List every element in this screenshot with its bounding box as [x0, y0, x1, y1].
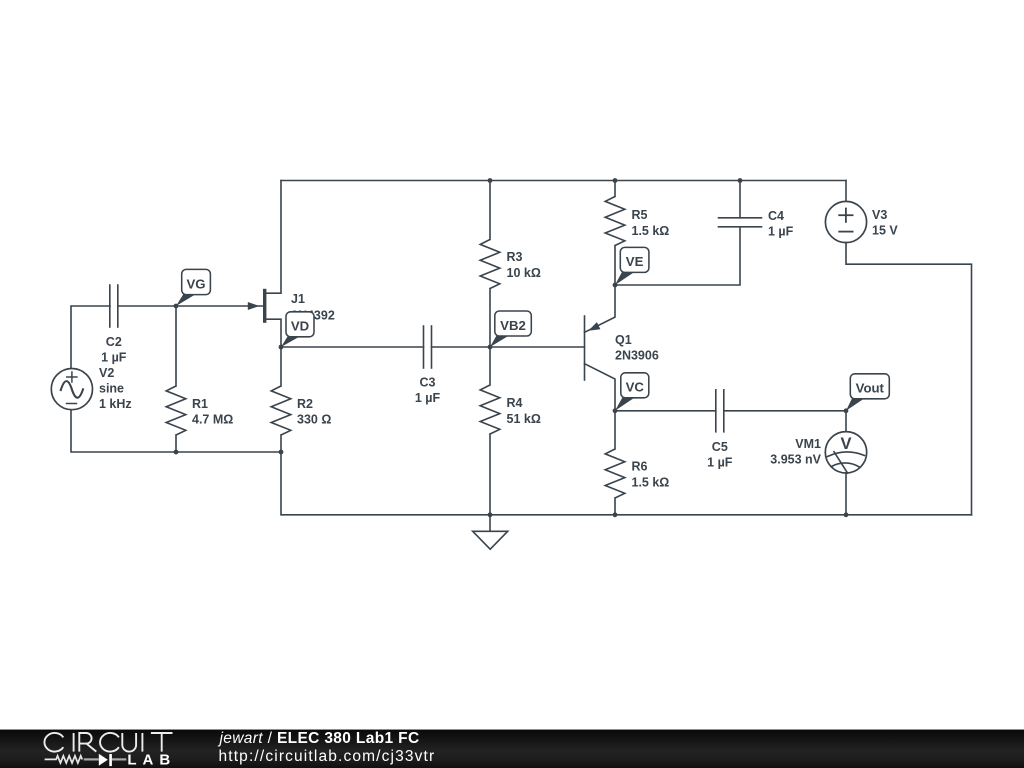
svg-text:V2: V2 — [99, 366, 114, 380]
flag VG — [176, 269, 210, 306]
flag Vout — [846, 374, 889, 411]
wire: V3 bottom to right edge down to bottom rail — [846, 242, 972, 514]
resistor R3 — [480, 181, 500, 348]
svg-text:3.953 nV: 3.953 nV — [770, 453, 821, 467]
resistor R4 — [480, 347, 500, 515]
svg-text:1 µF: 1 µF — [707, 455, 733, 469]
wire: C2 right to VG node — [118, 305, 176, 307]
svg-text:330 Ω: 330 Ω — [297, 413, 331, 427]
svg-text:2N3906: 2N3906 — [615, 349, 659, 363]
wire: C4 top to rail — [739, 181, 741, 218]
junction R3 top rail — [488, 178, 493, 183]
svg-text:1 µF: 1 µF — [101, 351, 127, 365]
junction C4 top rail — [738, 178, 743, 183]
ground symbol — [473, 515, 508, 549]
wire: R2 bottom down to ground rail — [281, 452, 972, 515]
resistor R2 — [271, 347, 291, 452]
capacitor C2 — [110, 285, 118, 327]
wire: V2 bottom to lower-left rail — [71, 411, 281, 453]
junction R2 bottom — [279, 450, 284, 455]
footer bar background — [0, 729, 1024, 730]
flag VB2 — [490, 311, 531, 347]
svg-text:15 V: 15 V — [872, 224, 898, 238]
svg-text:LAB: LAB — [127, 751, 176, 768]
svg-text:VC: VC — [626, 380, 645, 395]
junction VM1 bottom — [844, 512, 849, 517]
wire: J1 source stub down to VD node — [265, 319, 281, 347]
svg-text:1 µF: 1 µF — [768, 225, 794, 239]
svg-text:V3: V3 — [872, 208, 887, 222]
flag VD — [281, 312, 314, 347]
wire: V2 top to C2 left — [71, 306, 110, 368]
svg-text:VE: VE — [626, 254, 644, 269]
wire: VD node to C3 left — [281, 346, 424, 348]
voltmeter VM1 — [825, 411, 866, 515]
svg-text:VM1: VM1 — [795, 437, 821, 451]
junction R1 bottom — [174, 450, 179, 455]
svg-text:R3: R3 — [507, 250, 523, 264]
svg-text:C5: C5 — [712, 440, 728, 454]
capacitor C3 — [424, 326, 432, 368]
svg-text:1 kHz: 1 kHz — [99, 397, 132, 411]
resistor R1 — [166, 306, 186, 452]
wire: J1 drain to top rail — [265, 181, 281, 294]
flag VE — [615, 247, 649, 285]
svg-text:1.5 kΩ: 1.5 kΩ — [632, 224, 670, 238]
node VD junction — [279, 345, 284, 350]
node VC junction — [613, 408, 618, 413]
svg-text:V: V — [840, 435, 851, 453]
node VE junction — [613, 283, 618, 288]
node VB2 junction — [488, 345, 493, 350]
svg-text:R1: R1 — [192, 397, 208, 411]
svg-text:R5: R5 — [632, 208, 648, 222]
flag VC — [615, 373, 649, 411]
capacitor C4 — [719, 218, 762, 227]
node VG junction — [174, 304, 179, 309]
node Vout junction — [844, 408, 849, 413]
svg-text:VB2: VB2 — [500, 318, 526, 333]
gate arrow of J1 — [248, 302, 259, 310]
svg-text:VG: VG — [186, 276, 205, 291]
svg-text:VD: VD — [291, 319, 309, 334]
svg-text:10 kΩ: 10 kΩ — [507, 266, 541, 280]
svg-text:http://circuitlab.com/cj33vtr: http://circuitlab.com/cj33vtr — [219, 748, 436, 765]
svg-text:R2: R2 — [297, 397, 313, 411]
svg-text:C3: C3 — [420, 376, 436, 390]
resistor R5 — [605, 181, 625, 286]
CircuitLab logo word CIRCUIT — [44, 733, 172, 752]
svg-text:jewart / ELEC 380 Lab1 FC: jewart / ELEC 380 Lab1 FC — [218, 730, 420, 747]
wire: top supply rail — [281, 180, 846, 182]
voltage source V3 (DC 15V) — [825, 181, 866, 243]
logo resistor-diode squiggle — [45, 754, 127, 766]
svg-text:C4: C4 — [768, 209, 784, 223]
svg-text:1 µF: 1 µF — [415, 391, 441, 405]
svg-text:4.7 MΩ: 4.7 MΩ — [192, 413, 233, 427]
svg-text:Q1: Q1 — [615, 333, 632, 347]
junction R5 top rail — [613, 178, 618, 183]
junction ground rail — [488, 512, 493, 517]
svg-text:51 kΩ: 51 kΩ — [507, 412, 541, 426]
transistor Q1 (PNP 2N3906) — [585, 285, 616, 411]
junction R6 bottom — [613, 512, 618, 517]
wire: VE node to C4 bottom — [615, 227, 740, 285]
wire: VC node to C5 — [615, 410, 716, 412]
svg-text:Vout: Vout — [856, 381, 885, 396]
svg-text:1.5 kΩ: 1.5 kΩ — [632, 475, 670, 489]
svg-text:sine: sine — [99, 382, 124, 396]
svg-text:C2: C2 — [106, 335, 122, 349]
wire: VG node to J1 gate — [176, 305, 263, 307]
wire: C3 right to VB2 node to Q1 base — [432, 346, 585, 348]
wire: C5 right to Vout node — [724, 410, 846, 412]
svg-text:R6: R6 — [632, 460, 648, 474]
capacitor C5 — [716, 390, 724, 432]
voltage source V2 (sine) — [51, 369, 92, 410]
svg-text:J1: J1 — [291, 292, 305, 306]
resistor R6 — [605, 411, 625, 515]
JFET J1 channel bar — [263, 289, 266, 323]
svg-text:R4: R4 — [507, 396, 523, 410]
